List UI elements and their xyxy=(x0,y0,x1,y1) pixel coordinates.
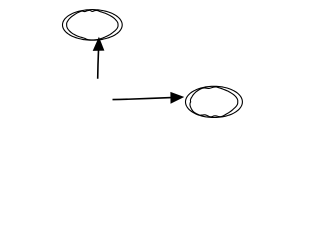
node S1 (accepting state, hand-drawn double-stroke ellipse) xyxy=(63,10,123,41)
node S2 (accepting state, hand-drawn double-stroke ellipse) xyxy=(186,86,243,117)
wire: vertical edge shaft into S1 xyxy=(97,50,100,78)
wire: horizontal edge shaft into S2 xyxy=(113,98,172,100)
arrowhead into S2 xyxy=(171,93,183,104)
arrowhead into S1 xyxy=(93,38,104,51)
